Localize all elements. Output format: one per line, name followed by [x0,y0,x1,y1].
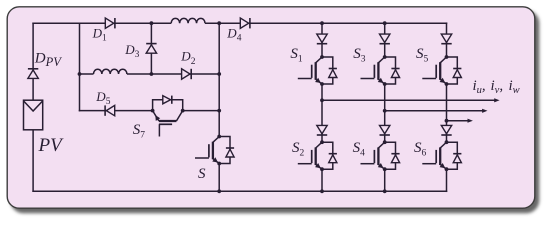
wire center vertical lower [218,164,220,192]
node center S7-rail junction [217,109,221,113]
diode D4 [240,18,250,28]
node center bottom junction [217,189,221,193]
diode D1 [105,18,115,28]
node D3 top junction [150,21,154,25]
svg-text:PV: PV [38,135,65,156]
node D3 bottom junction [150,72,154,76]
wire inverter leg 3 upper [446,22,448,57]
node A junction [78,72,82,76]
node leg 1 top junction [320,21,324,25]
wire S7 rail left segment [79,110,153,112]
solar panel PV [24,100,43,130]
wire center vertical upper [218,23,220,136]
wire middle rail right segment [127,73,219,75]
wire inverter leg 3 lower [446,169,448,192]
node leg 1 bottom junction [320,189,324,193]
svg-text:S: S [198,166,206,182]
wire output phase arrow 3 [447,120,470,122]
wire inverter leg 1 lower [321,169,323,191]
igbt S6 with antiparallel diode [422,140,461,171]
diode DPV [28,69,38,79]
igbt S2 with antiparallel diode [298,140,337,171]
inductor L2 on middle rail [94,69,127,74]
diode D2 [182,69,192,79]
node leg 2 top junction [383,21,387,25]
wire top bus right segment [205,22,447,24]
diode leg 2 upper series [380,34,390,44]
node center top junction [217,21,221,25]
igbt S with antiparallel diode [195,135,234,166]
node leg 1 output junction [320,98,324,102]
wire inverter leg 2 upper [384,23,386,57]
inductor L1 on top bus [171,18,205,23]
node leg 3 output junction [445,119,449,123]
diode leg 1 upper series [317,34,327,44]
wire output phase arrow 2 [385,110,485,112]
igbt S4 with antiparallel diode [361,140,400,171]
node leg 2 bottom junction [383,189,387,193]
wire top bus left segment [32,22,171,24]
wire D3 vertical [150,23,152,74]
wire inverter leg 2 lower [384,169,386,191]
wire inverter leg 1 upper [321,23,323,57]
wire middle rail left segment [80,73,94,75]
wire PV branch vertical [32,22,34,192]
diode D5 [105,105,115,115]
igbt S7 with antiparallel diode [151,96,185,137]
wire inverter leg 2 middle [384,84,386,142]
diode leg 3 lower series [441,125,451,135]
wire inverter leg 3 middle [446,84,448,142]
node center middle-rail junction [217,72,221,76]
wire vertical A [79,23,81,111]
node leg 2 output junction [383,109,387,113]
igbt S1 with antiparallel diode [298,55,337,86]
diode leg 1 lower series [317,125,327,135]
igbt S3 with antiparallel diode [361,55,400,86]
wire inverter leg 1 middle [321,84,323,142]
igbt S5 with antiparallel diode [422,55,461,86]
wire bottom rail [32,190,447,192]
wire output phase arrow 1 [322,99,496,101]
diode leg 2 lower series [380,125,390,135]
wire S7 rail right segment [183,110,220,112]
diode D3 [146,44,156,54]
diode leg 3 upper series [441,34,451,44]
label output currents iu iv iw [473,78,520,96]
